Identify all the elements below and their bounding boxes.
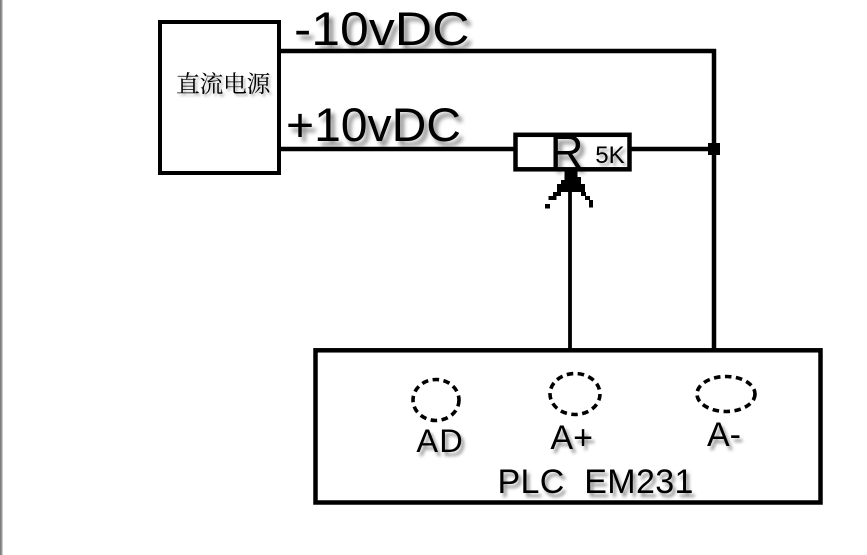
label AD bbox=[416, 425, 464, 458]
window left border bbox=[0, 0, 3, 555]
DC power supply box 直流电源 bbox=[160, 22, 279, 173]
PLC EM231 module box bbox=[316, 350, 821, 502]
potentiometer wiper arrow bbox=[545, 170, 593, 209]
label A- bbox=[707, 418, 741, 452]
label +10vDC bbox=[286, 102, 461, 150]
label 5K bbox=[595, 144, 624, 168]
terminal A- (dashed) bbox=[697, 377, 755, 412]
label PLC EM231 bbox=[498, 465, 694, 499]
label 直流电源 (drawn glyph paths) bbox=[177, 72, 269, 94]
wire: resistor right terminal to junction bbox=[629, 147, 712, 152]
label -10vDC bbox=[294, 6, 470, 54]
label A+ bbox=[550, 421, 593, 455]
terminal A+ (dashed) bbox=[550, 374, 600, 415]
wire: +10vDC from supply to resistor bbox=[279, 147, 515, 152]
label R bbox=[550, 128, 584, 175]
junction dot (node at bus / +10v wire) bbox=[708, 143, 720, 155]
wire: right vertical bus to A- bbox=[712, 49, 717, 351]
wire: -10vDC from supply to right bus bbox=[279, 49, 716, 54]
resistor R 5K (potentiometer body) bbox=[516, 135, 630, 170]
terminal AD (dashed) bbox=[413, 380, 459, 421]
wire: wiper to A+ input bbox=[568, 190, 572, 351]
